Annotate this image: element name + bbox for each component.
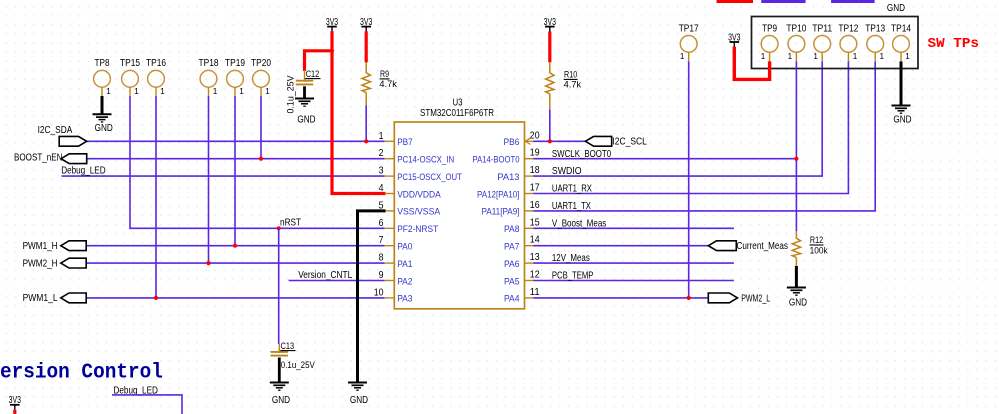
- svg-text:PB7: PB7: [397, 137, 413, 148]
- svg-text:PWM2_L: PWM2_L: [741, 294, 770, 305]
- wire TP18 to PA1 row: [208, 96, 210, 263]
- wire 3V3 to R10: [548, 32, 551, 63]
- svg-text:18: 18: [530, 165, 540, 176]
- svg-text:TP10: TP10: [786, 23, 806, 34]
- svg-text:I2C_SCL: I2C_SCL: [612, 137, 647, 148]
- ground under C13: [270, 382, 289, 384]
- svg-text:GND: GND: [789, 298, 807, 309]
- svg-text:TP20: TP20: [251, 58, 271, 69]
- svg-text:Debug_LED: Debug_LED: [61, 166, 105, 177]
- svg-text:VSS/VSSA: VSS/VSSA: [397, 207, 441, 218]
- pin 17 PA12[PA10]: [525, 193, 534, 195]
- box SW TPs group: [752, 17, 919, 69]
- wire Version_CNTL to pin9: [289, 280, 385, 282]
- svg-text:2: 2: [379, 148, 384, 159]
- wire pin11 to PWM2_L: [533, 297, 708, 299]
- pin 13 PA6: [525, 262, 534, 264]
- pin 4 VDD/VDDA: [385, 193, 395, 195]
- wire TP10 to R12: [795, 61, 797, 231]
- wire TP15 nRST net: [130, 96, 385, 228]
- pin 16 PA11[PA9]: [525, 210, 534, 212]
- pin 20 input arrow: [525, 140, 533, 142]
- svg-text:1: 1: [265, 87, 270, 96]
- wire 3V3 to TP9: [734, 47, 769, 80]
- svg-text:PA7: PA7: [504, 242, 520, 253]
- svg-text:Version Control: Version Control: [0, 361, 163, 384]
- wire PWM1_H to pin7: [86, 245, 384, 247]
- junction TP10/SWCLK: [794, 157, 798, 161]
- svg-text:1: 1: [761, 52, 766, 61]
- svg-text:SW TPs: SW TPs: [928, 36, 980, 52]
- junction TP19/PA0: [233, 244, 237, 248]
- svg-text:12V_Meas: 12V_Meas: [552, 253, 590, 264]
- wire Debug_LED bottom: [112, 395, 182, 414]
- wire 3V3 bottom stub: [13, 410, 16, 414]
- svg-text:R9: R9: [380, 69, 389, 79]
- port PWM2_H: [61, 258, 86, 268]
- wire 3V3 to VDD pin4: [332, 31, 386, 193]
- svg-text:V_Boost_Meas: V_Boost_Meas: [552, 218, 606, 229]
- op IC U3 STM32C011F6P6TR: [394, 122, 524, 309]
- wire TP20 to PC14 row: [260, 96, 262, 159]
- pin 9 PA2: [385, 280, 395, 282]
- svg-text:8: 8: [379, 253, 384, 264]
- ground under VSS: [348, 382, 367, 384]
- svg-text:PA12[PA10]: PA12[PA10]: [477, 189, 520, 200]
- svg-text:19: 19: [530, 148, 540, 159]
- svg-text:TP8: TP8: [95, 58, 110, 69]
- svg-text:4.7k: 4.7k: [379, 79, 397, 89]
- svg-text:0.1u_25V: 0.1u_25V: [286, 75, 296, 113]
- svg-text:TP9: TP9: [762, 23, 777, 34]
- pin 2 PC14-OSCX_IN: [385, 158, 395, 160]
- svg-text:13: 13: [530, 252, 540, 263]
- wire cropped red segment top: [717, 0, 754, 3]
- svg-text:16: 16: [530, 200, 540, 211]
- pin 6 PF2-NRST: [385, 227, 395, 229]
- ground under TP14: [892, 105, 911, 107]
- svg-text:20: 20: [530, 130, 540, 141]
- svg-text:GND: GND: [350, 395, 368, 406]
- pin 1 PB7: [385, 140, 395, 142]
- wire pin12 PCB_TEMP: [533, 280, 734, 282]
- wire nRST to C13: [278, 228, 280, 344]
- svg-text:1: 1: [160, 87, 165, 96]
- svg-text:1: 1: [788, 52, 793, 61]
- wire C12 to ground: [303, 86, 306, 98]
- svg-text:1: 1: [379, 131, 384, 142]
- svg-text:PA1: PA1: [397, 259, 412, 270]
- port I2C_SCL: [585, 136, 611, 146]
- svg-text:UART1_TX: UART1_TX: [552, 201, 591, 212]
- junction TP16/PA3: [154, 296, 158, 300]
- junction R10/PB6: [548, 139, 552, 143]
- svg-text:TP13: TP13: [865, 23, 885, 34]
- wire pin20 to I2C_SCL: [533, 140, 585, 142]
- svg-text:C12: C12: [306, 69, 320, 79]
- svg-text:VDD/VDDA: VDD/VDDA: [397, 189, 441, 200]
- svg-text:TP16: TP16: [146, 58, 166, 69]
- capacitor C13: [278, 343, 280, 353]
- svg-text:GND: GND: [297, 114, 315, 125]
- wire PWM2_H to pin8: [86, 262, 384, 264]
- svg-text:SWDIO: SWDIO: [552, 166, 582, 177]
- svg-text:TP14: TP14: [891, 23, 911, 34]
- svg-text:PB6: PB6: [504, 137, 520, 148]
- pin 11 PA4: [525, 297, 534, 299]
- resistor R12 100k: [795, 231, 797, 239]
- wire TP8 to ground: [101, 96, 104, 114]
- svg-text:1: 1: [239, 87, 244, 96]
- wire BOOST_nEN to pin2: [87, 158, 385, 160]
- svg-text:PA3: PA3: [397, 294, 412, 305]
- svg-text:SWCLK_BOOT0: SWCLK_BOOT0: [552, 149, 611, 160]
- wire Debug_LED to pin3: [62, 175, 385, 177]
- ground under TP8: [93, 113, 112, 115]
- svg-text:C13: C13: [281, 341, 295, 351]
- pin 14 PA7: [525, 245, 534, 247]
- pin 5 VSS/VSSA: [385, 210, 395, 212]
- svg-text:PCB_TEMP: PCB_TEMP: [552, 271, 594, 282]
- pin 8 PA1: [385, 262, 395, 264]
- wire TP19 to PA0 row: [234, 96, 236, 246]
- pin 18 PA13: [525, 175, 534, 177]
- svg-text:PA0: PA0: [397, 242, 412, 253]
- svg-text:1: 1: [853, 52, 858, 61]
- svg-text:100k: 100k: [810, 245, 829, 255]
- wire pin15 V_Boost_Meas: [533, 227, 734, 229]
- wire R9 to pin1 row: [365, 105, 367, 141]
- svg-text:11: 11: [530, 287, 540, 298]
- svg-text:TP11: TP11: [812, 23, 832, 34]
- svg-text:R10: R10: [564, 70, 577, 80]
- svg-text:7: 7: [379, 235, 384, 246]
- port I2C_SDA: [59, 136, 86, 146]
- svg-text:PC14-OSCX_IN: PC14-OSCX_IN: [397, 155, 454, 166]
- svg-text:1: 1: [134, 87, 139, 96]
- svg-text:PA11[PA9]: PA11[PA9]: [482, 207, 520, 218]
- svg-text:BOOST_nEN: BOOST_nEN: [14, 153, 63, 164]
- pin 3 PC15-OSCX_OUT: [385, 175, 395, 177]
- svg-text:PWM2_H: PWM2_H: [23, 258, 58, 269]
- svg-text:1: 1: [813, 52, 818, 61]
- svg-text:PWM1_L: PWM1_L: [23, 293, 58, 304]
- wire pin19 SWCLK_BOOT0: [533, 158, 796, 160]
- pin 12 PA5: [525, 280, 534, 282]
- svg-text:3: 3: [379, 166, 384, 177]
- junction TP20/BOOST_nEN: [259, 157, 263, 161]
- port PWM1_H: [61, 241, 86, 251]
- wire I2C_SDA to pin1: [87, 140, 385, 142]
- svg-text:PF2-NRST: PF2-NRST: [397, 224, 438, 235]
- svg-text:9: 9: [379, 270, 384, 281]
- wire TP16 to PWM1_L row: [155, 96, 157, 298]
- wire pin17 UART1_RX to TP12: [533, 61, 848, 193]
- svg-text:PA8: PA8: [504, 224, 520, 235]
- svg-text:I2C_SDA: I2C_SDA: [38, 125, 73, 136]
- capacitor C12: [304, 70, 306, 82]
- svg-text:6: 6: [379, 218, 384, 229]
- junction TP18/PA1: [206, 261, 210, 265]
- svg-text:17: 17: [530, 183, 540, 194]
- junction C13/nRST: [277, 226, 281, 230]
- svg-text:PA6: PA6: [504, 259, 520, 270]
- svg-text:0.1u_25V: 0.1u_25V: [281, 360, 315, 370]
- wire PWM1_L to pin10: [86, 297, 384, 299]
- wire C13 to ground: [278, 358, 281, 383]
- wire TP14 to ground: [900, 61, 903, 105]
- wire R10 to pin20 row: [549, 110, 551, 142]
- port Current_Meas: [708, 241, 736, 251]
- junction TP17/PA4: [687, 296, 691, 300]
- pin 7 PA0: [385, 245, 395, 247]
- wire cropped purple segment top 2: [831, 0, 875, 3]
- svg-text:nRST: nRST: [280, 218, 302, 229]
- svg-text:TP12: TP12: [838, 23, 858, 34]
- wire VSS to ground: [358, 211, 386, 383]
- svg-text:12: 12: [530, 270, 540, 281]
- port PWM1_L: [61, 293, 86, 303]
- port BOOST_nEN: [61, 154, 87, 164]
- svg-text:1: 1: [905, 52, 910, 61]
- ground under R12: [787, 287, 806, 289]
- svg-text:14: 14: [530, 235, 540, 246]
- svg-text:TP17: TP17: [679, 23, 699, 34]
- ground under C12: [295, 98, 314, 100]
- svg-text:1: 1: [106, 87, 111, 96]
- wire pin18 SWDIO to TP11: [533, 61, 822, 176]
- wire 3V3 to R9: [365, 31, 368, 62]
- wire pin13 12V_Meas: [533, 262, 734, 264]
- svg-text:PA5: PA5: [504, 276, 520, 287]
- port PWM2_L: [708, 293, 737, 303]
- svg-text:GND: GND: [272, 395, 290, 406]
- svg-text:R12: R12: [810, 235, 823, 245]
- svg-text:PA2: PA2: [397, 276, 412, 287]
- svg-text:4: 4: [379, 183, 384, 194]
- svg-text:15: 15: [530, 217, 540, 228]
- wire pin14 Current_Meas: [533, 245, 708, 247]
- svg-text:Current_Meas: Current_Meas: [737, 241, 789, 252]
- svg-text:PWM1_H: PWM1_H: [23, 241, 58, 252]
- svg-text:PC15-OSCX_OUT: PC15-OSCX_OUT: [397, 172, 462, 183]
- svg-text:STM32C011F6P6TR: STM32C011F6P6TR: [420, 108, 494, 119]
- svg-text:GND: GND: [893, 114, 911, 125]
- svg-text:TP19: TP19: [225, 58, 245, 69]
- svg-text:GND: GND: [887, 3, 905, 14]
- svg-text:TP15: TP15: [120, 58, 140, 69]
- wire branch to C12: [305, 51, 333, 71]
- svg-text:PA13: PA13: [497, 172, 519, 183]
- wire TP17 to pin11 row: [688, 61, 690, 298]
- pin 10 PA3: [385, 297, 395, 299]
- svg-text:PA14-BOOT0: PA14-BOOT0: [473, 155, 520, 166]
- svg-text:PA4: PA4: [504, 294, 520, 305]
- svg-text:GND: GND: [95, 123, 113, 134]
- pin 15 PA8: [525, 227, 534, 229]
- svg-text:1: 1: [880, 52, 885, 61]
- resistor R9 4.7k: [365, 62, 367, 73]
- junction R9/PB7: [364, 139, 368, 143]
- svg-text:4.7k: 4.7k: [564, 80, 582, 90]
- svg-text:1: 1: [680, 52, 685, 61]
- svg-text:Version_CNTL: Version_CNTL: [298, 270, 352, 281]
- wire R12 to ground: [795, 266, 798, 288]
- resistor R10 4.7k: [549, 62, 551, 73]
- pin 19 PA14-BOOT0: [525, 158, 534, 160]
- svg-text:UART1_RX: UART1_RX: [552, 184, 592, 195]
- svg-text:TP18: TP18: [199, 58, 219, 69]
- svg-text:1: 1: [213, 87, 218, 96]
- wire pin16 UART1_TX to TP13: [533, 61, 875, 211]
- wire cropped purple segment top 1: [761, 0, 805, 3]
- svg-text:10: 10: [374, 287, 384, 298]
